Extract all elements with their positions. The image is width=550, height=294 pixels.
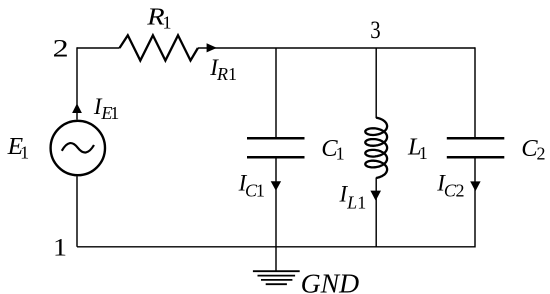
arrow IC2 (470, 181, 480, 191)
svg-text:R: R (216, 64, 228, 84)
ground bar 4 (266, 283, 287, 285)
arrow IR1 (207, 43, 217, 52)
wire left vertical above source (76, 47, 78, 119)
arrow IC1 (271, 181, 281, 191)
resistor R1 (120, 35, 198, 60)
svg-text:3: 3 (370, 17, 380, 44)
svg-text:1: 1 (20, 142, 29, 162)
capacitor C1 (247, 137, 305, 140)
svg-text:L: L (346, 193, 357, 213)
wire C1 branch upper (275, 48, 277, 137)
wire C2 branch upper (474, 47, 476, 137)
wire C2 branch lower (474, 158, 476, 247)
capacitor C2 (447, 137, 505, 140)
wire resistor to node 3 to right corner (198, 47, 475, 49)
svg-text:1: 1 (419, 143, 428, 163)
wire C1 branch lower (275, 158, 277, 247)
svg-text:1: 1 (256, 180, 265, 200)
wire bottom horizontal (77, 246, 475, 248)
ground bar 1 (253, 270, 300, 272)
arrow IL1 (370, 191, 381, 201)
svg-text:1: 1 (53, 234, 67, 261)
svg-text:2: 2 (53, 36, 69, 63)
ground stem (275, 247, 277, 271)
svg-text:1: 1 (110, 103, 119, 123)
wire left vertical below source (76, 176, 78, 247)
svg-text:2: 2 (456, 181, 465, 201)
arrow IE1 (72, 103, 82, 113)
inductor L1 (365, 118, 387, 178)
svg-text:1: 1 (336, 144, 345, 164)
wire top-left from node 2 corner to resistor (77, 47, 120, 49)
ground bar 3 (261, 279, 292, 281)
svg-text:1: 1 (228, 64, 237, 84)
svg-text:1: 1 (357, 193, 366, 213)
ground bar 2 (258, 275, 296, 277)
svg-text:1: 1 (163, 12, 172, 32)
svg-text:2: 2 (537, 144, 546, 164)
source E1 (51, 121, 105, 175)
sine wave inside E1 (62, 143, 94, 152)
wire L1 branch lower (375, 178, 377, 247)
svg-text:GND: GND (301, 267, 360, 294)
wire L1 branch upper (375, 48, 377, 118)
